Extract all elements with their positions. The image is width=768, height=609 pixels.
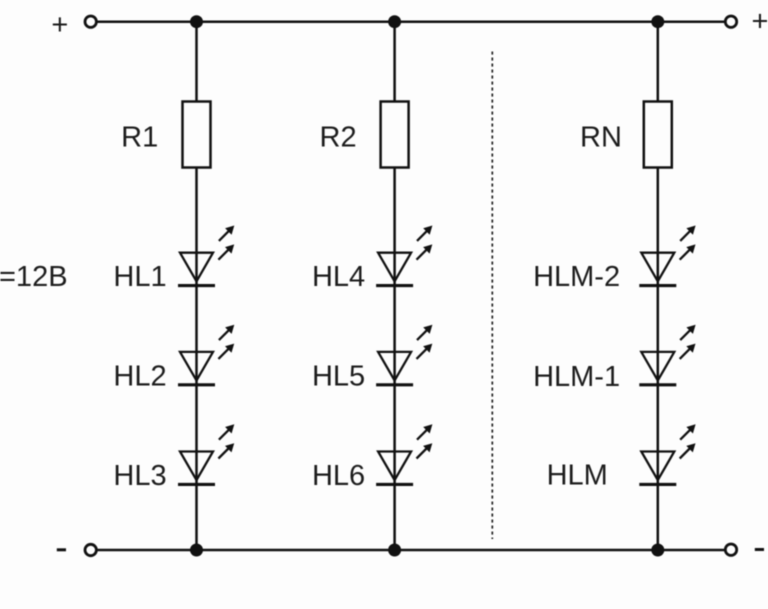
- svg-text:HL4: HL4: [312, 261, 365, 293]
- svg-text:+: +: [51, 9, 68, 41]
- label - right: [755, 548, 764, 551]
- terminal - right: [725, 544, 736, 555]
- junction branch 2 top: [388, 15, 401, 28]
- terminal + left: [85, 16, 96, 27]
- svg-text:HL1: HL1: [113, 261, 166, 293]
- LED HL6: [376, 424, 432, 484]
- LED HLM-2: [639, 226, 695, 286]
- junction branch N bottom: [651, 544, 664, 557]
- LED HL4: [376, 226, 432, 286]
- LED HLM-1: [639, 325, 695, 385]
- LED HLM: [639, 424, 695, 484]
- junction branch N top: [651, 15, 664, 28]
- junction branch 2 bottom: [388, 544, 401, 557]
- LED HL1: [178, 226, 234, 286]
- wire top rail: [96, 20, 725, 23]
- dotted divider continuation line: [491, 52, 493, 540]
- resistor R1: [183, 102, 211, 168]
- svg-text:HLM-2: HLM-2: [533, 261, 620, 293]
- wire branch N: [657, 22, 660, 550]
- wire branch 2: [393, 22, 396, 550]
- svg-text:HL2: HL2: [113, 360, 166, 392]
- LED HL2: [178, 325, 234, 385]
- terminal + right: [725, 16, 736, 27]
- svg-text:=12В: =12В: [0, 261, 68, 293]
- junction branch 1 top: [190, 15, 203, 28]
- svg-text:HLM: HLM: [547, 460, 608, 492]
- svg-text:HL3: HL3: [113, 460, 166, 492]
- svg-text:+: +: [752, 5, 768, 37]
- svg-text:RN: RN: [580, 122, 622, 154]
- LED HL5: [376, 325, 432, 385]
- label - left: [57, 548, 66, 551]
- terminal - left: [85, 544, 96, 555]
- svg-text:HL5: HL5: [312, 360, 365, 392]
- svg-text:HLM-1: HLM-1: [533, 361, 620, 393]
- junction branch 1 bottom: [190, 544, 203, 557]
- resistor R2: [381, 102, 409, 168]
- svg-text:R1: R1: [121, 122, 158, 154]
- svg-text:R2: R2: [320, 122, 357, 154]
- LED HL3: [178, 424, 234, 484]
- resistor RN: [644, 102, 672, 168]
- svg-text:HL6: HL6: [312, 460, 365, 492]
- wire bottom rail: [96, 549, 725, 552]
- wire branch 1: [195, 22, 198, 550]
